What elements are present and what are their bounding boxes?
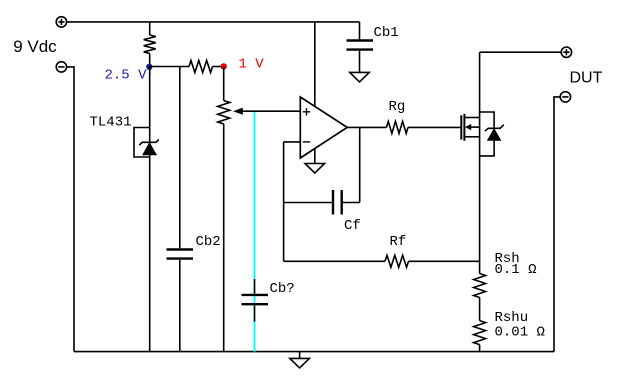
body diode D1 xyxy=(488,129,501,140)
transistor Q1 source stub xyxy=(464,136,479,138)
svg-text:0.01 Ω: 0.01 Ω xyxy=(495,325,545,341)
terminal - (DUT negative) xyxy=(560,92,570,102)
wire cyan probe net xyxy=(254,112,256,352)
body diode branch xyxy=(480,112,495,156)
wire 1V node down to potentiometer xyxy=(223,66,225,100)
capacitor Cb? leads xyxy=(254,279,256,322)
svg-text:9 Vdc: 9 Vdc xyxy=(13,37,57,56)
resistor R1 (from +rail to 2.5V node) xyxy=(149,22,151,35)
transistor Q1 drain stub xyxy=(464,117,479,119)
svg-text:Cb1: Cb1 xyxy=(374,25,399,41)
TL431 body box xyxy=(134,128,150,158)
svg-text:TL431: TL431 xyxy=(90,114,132,130)
capacitor Cb1 xyxy=(347,39,374,41)
wire Cb2 branch from divider wire down xyxy=(179,67,181,249)
svg-text:Rf: Rf xyxy=(390,234,407,250)
svg-text:Cb?: Cb? xyxy=(270,281,295,297)
wire drain to DUT+ xyxy=(480,51,562,53)
wire DUT- down to bottom rail xyxy=(554,97,561,352)
svg-text:Cf: Cf xyxy=(344,218,361,234)
wire bottom rail (ground rail) xyxy=(74,351,554,353)
transistor Q1 channel bar xyxy=(463,114,465,141)
capacitor Cf xyxy=(332,190,334,215)
wire Rshu to bottom rail xyxy=(479,345,481,352)
terminal + (9 Vdc positive) xyxy=(56,17,66,27)
resistor Rg xyxy=(387,121,408,133)
svg-text:1 V: 1 V xyxy=(239,56,265,72)
wire Rf left lead xyxy=(284,260,385,262)
node 1V junction dot xyxy=(221,63,227,69)
wire drain vertical xyxy=(479,52,481,273)
terminal + (DUT positive) xyxy=(561,47,571,57)
svg-text:Rg: Rg xyxy=(389,99,406,115)
transistor Q1 gate bar xyxy=(460,115,462,139)
wire Cf left lead xyxy=(284,202,332,204)
resistor R2 (divider to 1V node) xyxy=(189,61,213,73)
terminal - (9 Vdc negative) xyxy=(56,62,66,72)
svg-text:DUT: DUT xyxy=(570,69,603,86)
potentiometer R3 xyxy=(218,101,230,125)
svg-text:Cb2: Cb2 xyxy=(196,234,221,250)
svg-text:2.5 V: 2.5 V xyxy=(105,68,148,84)
op-amp + input marking xyxy=(303,108,310,115)
ground (op-amp V-) xyxy=(314,148,316,163)
ground (bottom rail) xyxy=(299,352,301,359)
op-amp U2 triangle xyxy=(300,97,347,158)
wire 2.5V node to divider resistor xyxy=(150,66,189,68)
wire op-amp V+ supply from top rail xyxy=(314,22,316,107)
resistor Rsh xyxy=(474,274,486,298)
wire Cf up to output node xyxy=(359,127,361,202)
TL431 zener diode U1 xyxy=(143,143,156,155)
wire Rsh to Rshu xyxy=(479,298,481,321)
wire op-amp inverting input xyxy=(284,141,301,143)
resistor Rshu xyxy=(474,321,486,345)
wire 2.5V node down through TL431 to bottom rail xyxy=(149,67,151,352)
capacitor Cb2 xyxy=(167,248,194,250)
transistor Q1 body arrow xyxy=(471,126,480,128)
node 2.5V junction dot xyxy=(146,64,152,70)
wire feedback from - input down xyxy=(283,142,285,261)
svg-text:0.1 Ω: 0.1 Ω xyxy=(495,262,537,278)
wire top rail xyxy=(67,21,360,23)
potentiometer wiper arrow xyxy=(243,110,301,112)
op-amp - input marking xyxy=(303,141,310,143)
wire op-amp output xyxy=(347,126,386,128)
resistor Rf xyxy=(385,255,409,267)
wire from - terminal down to bottom rail xyxy=(67,67,75,352)
ground (Cb1) xyxy=(350,72,370,82)
wire Cb1 from top rail xyxy=(359,22,361,39)
capacitor Cb? plates xyxy=(242,294,269,296)
